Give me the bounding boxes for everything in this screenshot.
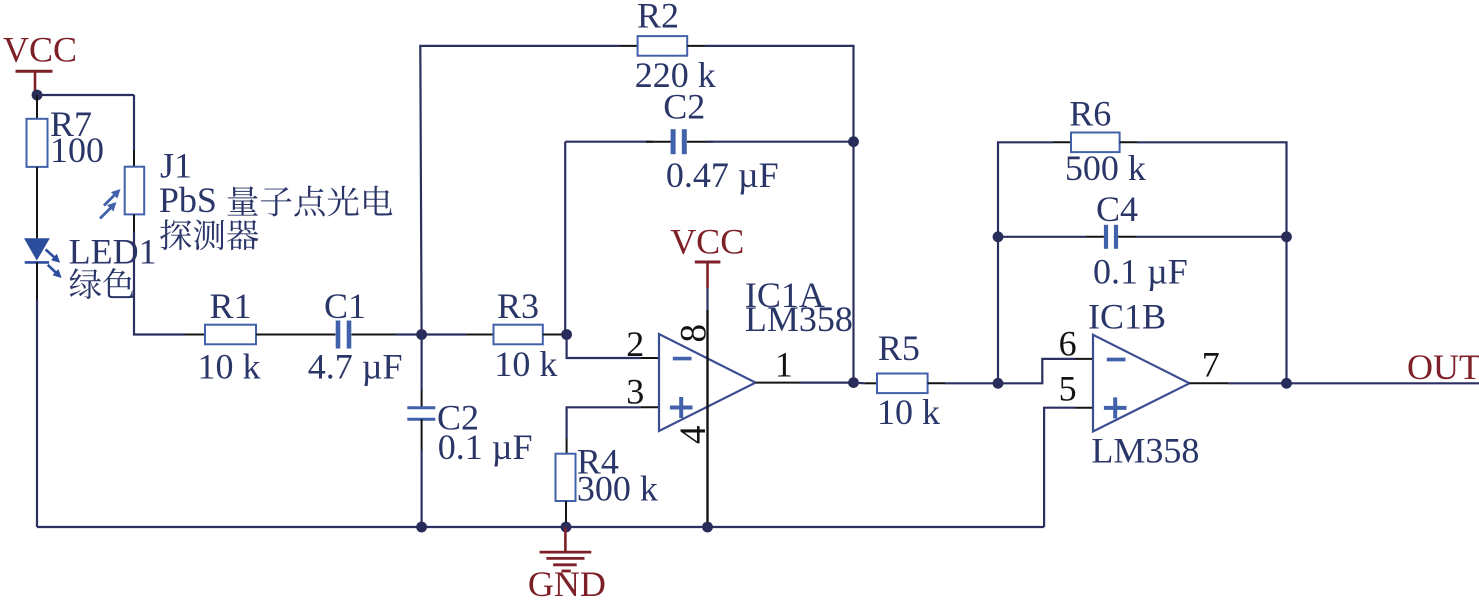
node inverting input net xyxy=(561,329,572,340)
wire R6 left pin xyxy=(1053,141,1071,143)
wire R7 to LED1 xyxy=(36,167,38,238)
svg-text:R5: R5 xyxy=(878,328,920,368)
node A (C1/R2 loop/C2/R3 junction) xyxy=(416,329,427,340)
wire VCC to IC1A pin 8 and pin 4 to rail xyxy=(706,288,708,310)
node C2/R2 loop junction xyxy=(848,136,859,147)
svg-text:100: 100 xyxy=(50,130,104,170)
wire IC1B output pin 7 xyxy=(1190,382,1229,384)
svg-text:R1: R1 xyxy=(209,286,251,326)
wire left branch to bottom rail xyxy=(36,300,38,527)
wire IC1B pin 5 from bottom rail xyxy=(1044,408,1075,527)
wire IC1A output pin 1 xyxy=(756,382,801,384)
node C4 left junction xyxy=(993,231,1004,242)
wire junction down to C2 (0.1 uF) xyxy=(421,335,423,391)
svg-text:GND: GND xyxy=(528,564,606,604)
wire IC1B pin 6 stub xyxy=(1075,358,1093,360)
svg-text:VCC: VCC xyxy=(670,222,744,262)
connector J1 (PbS photodetector) xyxy=(100,167,144,219)
svg-text:0.1 µF: 0.1 µF xyxy=(1093,252,1188,292)
wire IC1A pin 2 stub xyxy=(641,357,659,359)
wire down to J1 xyxy=(133,95,135,150)
op-amp IC1A xyxy=(659,334,756,431)
svg-text:7: 7 xyxy=(1202,344,1220,384)
power symbol VCC (IC1A) xyxy=(670,222,744,289)
svg-text:VCC: VCC xyxy=(3,30,77,70)
wire output to R5 xyxy=(854,382,866,385)
wire R6 to right vertical xyxy=(1137,142,1287,383)
node IC1A output xyxy=(848,377,859,388)
capacitor C4 xyxy=(1104,225,1108,249)
svg-text:0.1 µF: 0.1 µF xyxy=(438,427,533,467)
label LED1 green xyxy=(70,268,134,299)
wire ground rail xyxy=(37,526,1044,528)
wire into R1 xyxy=(185,334,205,336)
wire R2 to right loop vertical xyxy=(705,46,854,142)
wire R4 top pin xyxy=(566,438,568,454)
resistor R1 xyxy=(205,325,256,345)
svg-text:10 k: 10 k xyxy=(877,392,940,432)
wire LED1 cathode down xyxy=(36,262,38,300)
power symbol VCC (left) xyxy=(3,30,77,96)
svg-text:C2: C2 xyxy=(663,87,705,127)
wire pin 3 to R4 xyxy=(567,407,641,438)
svg-text:1: 1 xyxy=(775,345,793,385)
resistor R2 xyxy=(638,36,688,56)
svg-text:500 k: 500 k xyxy=(1065,148,1146,188)
wire IC1B pin 5 stub xyxy=(1075,407,1093,409)
svg-text:2: 2 xyxy=(626,324,644,364)
svg-text:C1: C1 xyxy=(324,286,366,326)
wire right loop vertical to op-amp output xyxy=(852,142,854,383)
wire junction to R3 xyxy=(422,333,466,335)
svg-text:C4: C4 xyxy=(1096,189,1138,229)
wire C2 left pin xyxy=(646,141,671,143)
svg-text:R2: R2 xyxy=(637,0,679,36)
LED LED1 xyxy=(24,238,62,278)
node rail/R4/GND xyxy=(561,522,572,533)
svg-text:0.47 µF: 0.47 µF xyxy=(666,155,779,195)
wire C2 right pin xyxy=(687,141,713,143)
label PbS quantum-dot photodetector line 2 xyxy=(160,219,258,250)
svg-text:10 k: 10 k xyxy=(494,344,557,384)
wire R3 right pin xyxy=(543,334,567,336)
wire C2 feedback down to R3 node xyxy=(564,142,566,335)
wire to IC1A pin 2 xyxy=(567,335,641,359)
svg-text:6: 6 xyxy=(1059,324,1077,364)
node VCC rail (junction R7/J1) xyxy=(32,90,43,101)
capacitor C1 xyxy=(336,321,341,349)
resistor R6 xyxy=(1071,133,1120,153)
svg-text:R6: R6 xyxy=(1069,94,1111,134)
node rail/C2 xyxy=(416,522,427,533)
svg-text:LED1: LED1 xyxy=(69,231,157,271)
resistor R4 xyxy=(556,454,576,501)
svg-text:4.7 µF: 4.7 µF xyxy=(308,347,403,387)
svg-text:3: 3 xyxy=(626,372,644,412)
wire R6 right pin xyxy=(1120,141,1137,143)
wire C4 left xyxy=(998,236,1086,238)
capacitor C2 (0.1 uF) xyxy=(407,406,435,409)
wire R2 left pin xyxy=(620,45,638,47)
wire to IC1B pin 6 xyxy=(998,359,1075,383)
wire R4 bottom pin xyxy=(565,501,567,527)
wire R2 right pin xyxy=(687,45,705,47)
wire VCC junction to J1 branch xyxy=(37,94,134,96)
svg-text:300 k: 300 k xyxy=(577,468,658,508)
svg-text:R3: R3 xyxy=(497,286,539,326)
wire C2 bottom to rail xyxy=(421,419,423,450)
node C4 right junction xyxy=(1281,231,1292,242)
wire R1 to C1 xyxy=(256,334,335,336)
wire IC1A pin 3 stub xyxy=(641,406,659,408)
wire C2 feedback left xyxy=(565,141,653,143)
wire C2 to right loop vertical xyxy=(707,141,854,143)
svg-text:IC1B: IC1B xyxy=(1088,297,1166,337)
node R5/R6/C4 junction xyxy=(993,378,1004,389)
wire R7 top pin xyxy=(36,95,38,119)
wire R2 loop left/top xyxy=(420,46,620,335)
resistor R7 xyxy=(27,119,48,167)
svg-text:LM358: LM358 xyxy=(1091,431,1199,471)
wire J1 bottom to signal corner xyxy=(133,214,135,232)
resistor R3 xyxy=(494,325,543,345)
svg-text:PbS: PbS xyxy=(159,180,217,220)
wire up to R6 loop xyxy=(998,142,1053,383)
op-amp IC1B xyxy=(1093,335,1190,432)
wire R5 right pin xyxy=(928,382,945,384)
svg-text:OUT: OUT xyxy=(1407,347,1479,387)
svg-text:LM358: LM358 xyxy=(745,299,853,339)
resistor R5 xyxy=(877,374,928,394)
node rail/IC1A pin 4 xyxy=(702,522,713,533)
svg-text:5: 5 xyxy=(1059,369,1077,409)
node output/feedback junction xyxy=(1281,378,1292,389)
wire C4 right xyxy=(1118,236,1136,238)
svg-text:10 k: 10 k xyxy=(198,347,261,387)
capacitor C2 (0.47 uF feedback) xyxy=(671,129,676,154)
wire C1 to main junction xyxy=(352,334,396,336)
ground GND xyxy=(540,527,592,571)
